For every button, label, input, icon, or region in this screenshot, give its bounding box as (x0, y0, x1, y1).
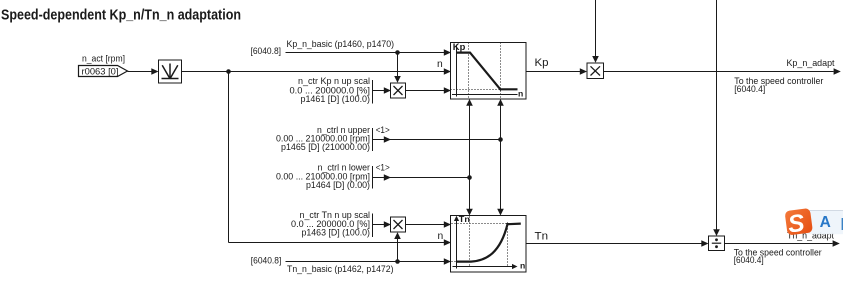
junction n (226, 69, 231, 74)
svg-text:Tn: Tn (459, 214, 470, 224)
svg-text:Tn: Tn (535, 231, 549, 243)
wire Kp_n_basic to Kp characteristic (286, 49, 452, 56)
wire Tn_n_basic to Tn characteristic (286, 258, 452, 265)
svg-text:p1463 [D] (100.0): p1463 [D] (100.0) (302, 228, 371, 238)
svg-text:r0063 [0]: r0063 [0] (82, 67, 119, 77)
svg-text:n: n (518, 89, 523, 99)
svg-text:n_act [rpm]: n_act [rpm] (82, 54, 125, 64)
wire threshold line 2 (n upper) between characteristics (497, 99, 504, 216)
node To the speed controller upper (734, 76, 823, 94)
node n_act input connector r0063[0] (79, 54, 128, 77)
watermark letter sliver (842, 218, 843, 230)
svg-text:Tn_n_basic (p1462, p1472): Tn_n_basic (p1462, p1472) (287, 264, 394, 274)
wire from top into multiplier U3 (592, 0, 599, 63)
svg-text:<1>: <1> (376, 125, 390, 135)
svg-text:n: n (437, 59, 443, 70)
svg-text:Speed-dependent Kp_n/Tn_n adap: Speed-dependent Kp_n/Tn_n adaptation (1, 8, 241, 24)
svg-text:Kp_n_basic (p1460, p1470): Kp_n_basic (p1460, p1470) (287, 39, 395, 49)
parameter p1461 n_ctr Kp n up scal (290, 76, 373, 104)
Tn characteristic block (451, 214, 527, 272)
svg-text:Kp_n_adapt: Kp_n_adapt (787, 58, 835, 68)
parameter p1464 n_ctrl n lower (276, 163, 390, 190)
wire r0063 to abs block (128, 68, 159, 75)
wire abs output to n input of Kp characteristic (182, 71, 445, 73)
node To the speed controller lower (734, 248, 822, 266)
wire Tn_n_basic branch up into multiplier U2 (394, 232, 401, 264)
Kp characteristic block (451, 42, 527, 99)
multiplier U2 (Tn scaling) (391, 217, 406, 232)
wire Tn output to divider U4 (526, 240, 709, 247)
svg-text:p1461 [D] (100.0): p1461 [D] (100.0) (301, 94, 371, 104)
abs value block (159, 60, 182, 83)
svg-text:Kp: Kp (535, 57, 549, 69)
wire junction down into upper multiplier (394, 53, 401, 83)
svg-text:[6040.8]: [6040.8] (251, 256, 281, 266)
wire Kp_n_adapt output (604, 68, 841, 75)
svg-text:[6040.4]: [6040.4] (734, 255, 764, 265)
wire n branch down and right to Tn characteristic (228, 72, 230, 243)
wire Kp output to multiplier U3 (526, 68, 587, 75)
wire p1465 to threshold line 2 (373, 136, 503, 143)
svg-text:p1464 [D] (0.00): p1464 [D] (0.00) (306, 180, 370, 190)
svg-text:Kp: Kp (453, 42, 466, 52)
watermark logo tile (785, 208, 814, 239)
multiplier U1 (Kp scaling) (391, 83, 406, 98)
svg-text:A: A (820, 214, 831, 231)
svg-text:<1>: <1> (376, 163, 390, 173)
wire multiplier U2 to Tn characteristic (406, 221, 452, 228)
wire multiplier U1 to Kp characteristic (406, 87, 452, 94)
watermark band (807, 210, 843, 234)
parameter p1463 n_ctr Tn n up scal (291, 210, 373, 238)
arrowhead n into Tn characteristic (444, 239, 451, 246)
wire from top into divider U4 (713, 0, 720, 236)
svg-text:[6040.4]: [6040.4] (734, 84, 765, 94)
multiplier U3 (Kp_n_adapt) (587, 63, 604, 79)
svg-text:n: n (438, 231, 444, 242)
wire Tn_n_adapt output (725, 240, 840, 247)
svg-text:[6040.8]: [6040.8] (251, 46, 282, 56)
divider U4 (Tn_n_adapt) (709, 236, 725, 251)
wire p1463 to lower multiplier (373, 221, 392, 228)
parameter p1465 n_ctrl n upper (276, 125, 390, 152)
svg-text:p1465 [D] (210000.00): p1465 [D] (210000.00) (281, 142, 370, 152)
wire p1464 to threshold line 1 (373, 174, 472, 181)
wire p1461 to upper multiplier (373, 87, 392, 94)
svg-text:n: n (520, 261, 525, 271)
arrowhead n into Kp characteristic (444, 68, 451, 75)
wire threshold line 1 (n lower) between characteristics (466, 99, 473, 216)
junction Kp_n_basic (395, 50, 400, 55)
